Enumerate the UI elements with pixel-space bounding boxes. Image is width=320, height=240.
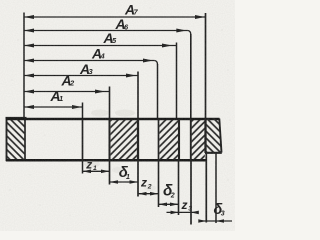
extension line P3 above section [137,72,139,120]
extension line P1 above section [82,103,84,120]
extension line P6 below section [190,160,192,224]
svg-text:3: 3 [188,206,192,213]
svg-text:3: 3 [221,211,225,218]
extension line P2 below section [109,160,111,184]
extension line P2 above section [109,87,111,120]
svg-text:1: 1 [59,94,63,103]
section top line [6,118,220,121]
svg-text:2: 2 [69,79,75,88]
dimension δ3 (arrows outside) [198,202,232,223]
part C (hatch /) [111,119,138,160]
dimension A6 [24,16,191,34]
dimension δ2 [159,183,179,207]
section bottom line [6,159,207,162]
svg-text:4: 4 [100,52,106,61]
dimension A3 [24,61,138,78]
svg-text:z: z [181,198,188,212]
dimension A7 [24,1,206,19]
part E (hatch /) [159,119,180,160]
part H: housing right wall / cover (hatch \, slanted outer edge) [205,119,222,154]
part edge x=109.5 (ring B / bush C) [109,119,111,160]
part G (hatch /) [191,119,205,160]
svg-text:2: 2 [170,192,175,199]
part: housing left wall (hatch \) [6,118,27,162]
dimension z3 (arrows outside) [167,198,199,214]
extension line P4 below section [158,160,160,207]
dimension z1 [83,158,110,173]
extension line P5 below section [178,160,180,215]
dimension A5 [24,30,177,48]
dimension A2 [24,73,110,94]
common left extension line (right face of left wall) [23,13,25,120]
extension line P6 above section [190,34,192,119]
extension line P4 above section [157,64,159,119]
extension line P7 above section [205,13,207,119]
extension line P5 above section [176,43,178,120]
photocopy grain overlay [0,0,235,231]
extension line P8 (x=216) below part H [215,154,217,224]
extension line P7 below section [205,153,207,223]
part edge x=82.5 (gap / ring B) [82,119,84,160]
extension line P3 below section [137,160,139,196]
dimension A4 [24,45,158,64]
dimension z2 [138,175,159,195]
dimension δ1 [110,164,139,184]
scan noise speckles [9,7,231,223]
extension line P1 below section [82,160,84,173]
svg-text:1: 1 [126,174,130,181]
dimension A1 [24,88,83,109]
